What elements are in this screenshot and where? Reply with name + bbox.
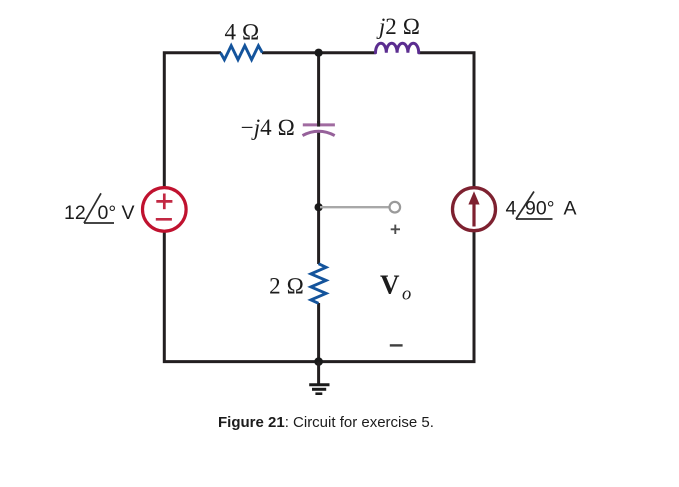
svg-text:0°: 0°	[98, 202, 117, 224]
capacitor -j4 ohm top plate (straight, mauve)	[303, 123, 335, 126]
angle symbol for 12 angle 0 V	[84, 193, 114, 223]
svg-text:j2 Ω: j2 Ω	[376, 14, 420, 39]
wire: middle branch stub crossing capacitor top plate	[317, 121, 320, 127]
svg-text:V: V	[380, 270, 400, 300]
svg-text:o: o	[402, 285, 411, 305]
open terminal (gray circle)	[390, 202, 401, 213]
wire: left branch (top-left corner down to voltage source, and top run to 4ohm resistor)	[164, 53, 221, 188]
svg-text:90°: 90°	[525, 198, 555, 220]
wire: top middle segment (4ohm resistor to node A to inductor)	[262, 51, 376, 54]
wire: middle branch upper (node A down to capacitor top plate)	[317, 53, 320, 124]
angle symbol for 4 angle 90 A	[516, 192, 553, 220]
ground stub wire	[317, 362, 320, 384]
plus sign of Vo	[391, 225, 400, 234]
minus sign of Vo	[390, 344, 403, 346]
current source arrow (upward)	[468, 191, 479, 226]
svg-text:12: 12	[64, 202, 86, 224]
voltage source plus sign	[156, 194, 172, 210]
wire: middle branch lower (2ohm resistor to node B)	[317, 303, 320, 362]
wire: right branch lower (current source to bottom-right corner along bottom to node B)	[319, 232, 474, 362]
svg-text:4 Ω: 4 Ω	[225, 20, 260, 45]
voltage source minus sign	[156, 218, 172, 221]
wire: middle branch (capacitor bottom plate down through node O to 2ohm resistor)	[317, 131, 320, 264]
svg-text:Figure 21: Circuit for exercis: Figure 21: Circuit for exercise 5.	[218, 414, 434, 431]
svg-text:A: A	[564, 198, 577, 220]
svg-text:−j4 Ω: −j4 Ω	[241, 115, 295, 140]
wire: left branch lower (voltage source down to bottom-left corner and along bottom to node B)	[164, 232, 318, 362]
label 12 angle 0 V	[64, 202, 135, 224]
resistor 4ohm (top left, blue zigzag)	[221, 46, 263, 60]
node B (bottom middle junction dot)	[314, 357, 323, 366]
capacitor -j4 ohm bottom plate (curved, mauve)	[303, 131, 335, 135]
svg-text:4: 4	[506, 198, 517, 220]
inductor j2 ohm (top right, purple coil)	[376, 43, 419, 53]
node A (top middle junction dot)	[315, 49, 323, 57]
wire: output tap (gray lead from node O to open terminal)	[320, 206, 389, 208]
resistor 2ohm (middle vertical, blue zigzag)	[311, 264, 326, 304]
svg-text:V: V	[122, 202, 135, 224]
svg-text:2 Ω: 2 Ω	[269, 274, 304, 299]
node O (middle junction dot at output tap)	[315, 203, 323, 211]
label 4 angle 90 A	[506, 198, 577, 220]
wire: top right segment (inductor to top-right corner down to current source)	[419, 53, 474, 188]
ground symbol (three bars)	[309, 385, 329, 394]
voltage source V1 circle (red)	[143, 188, 187, 232]
current source I1 circle (dark maroon)	[453, 188, 496, 231]
